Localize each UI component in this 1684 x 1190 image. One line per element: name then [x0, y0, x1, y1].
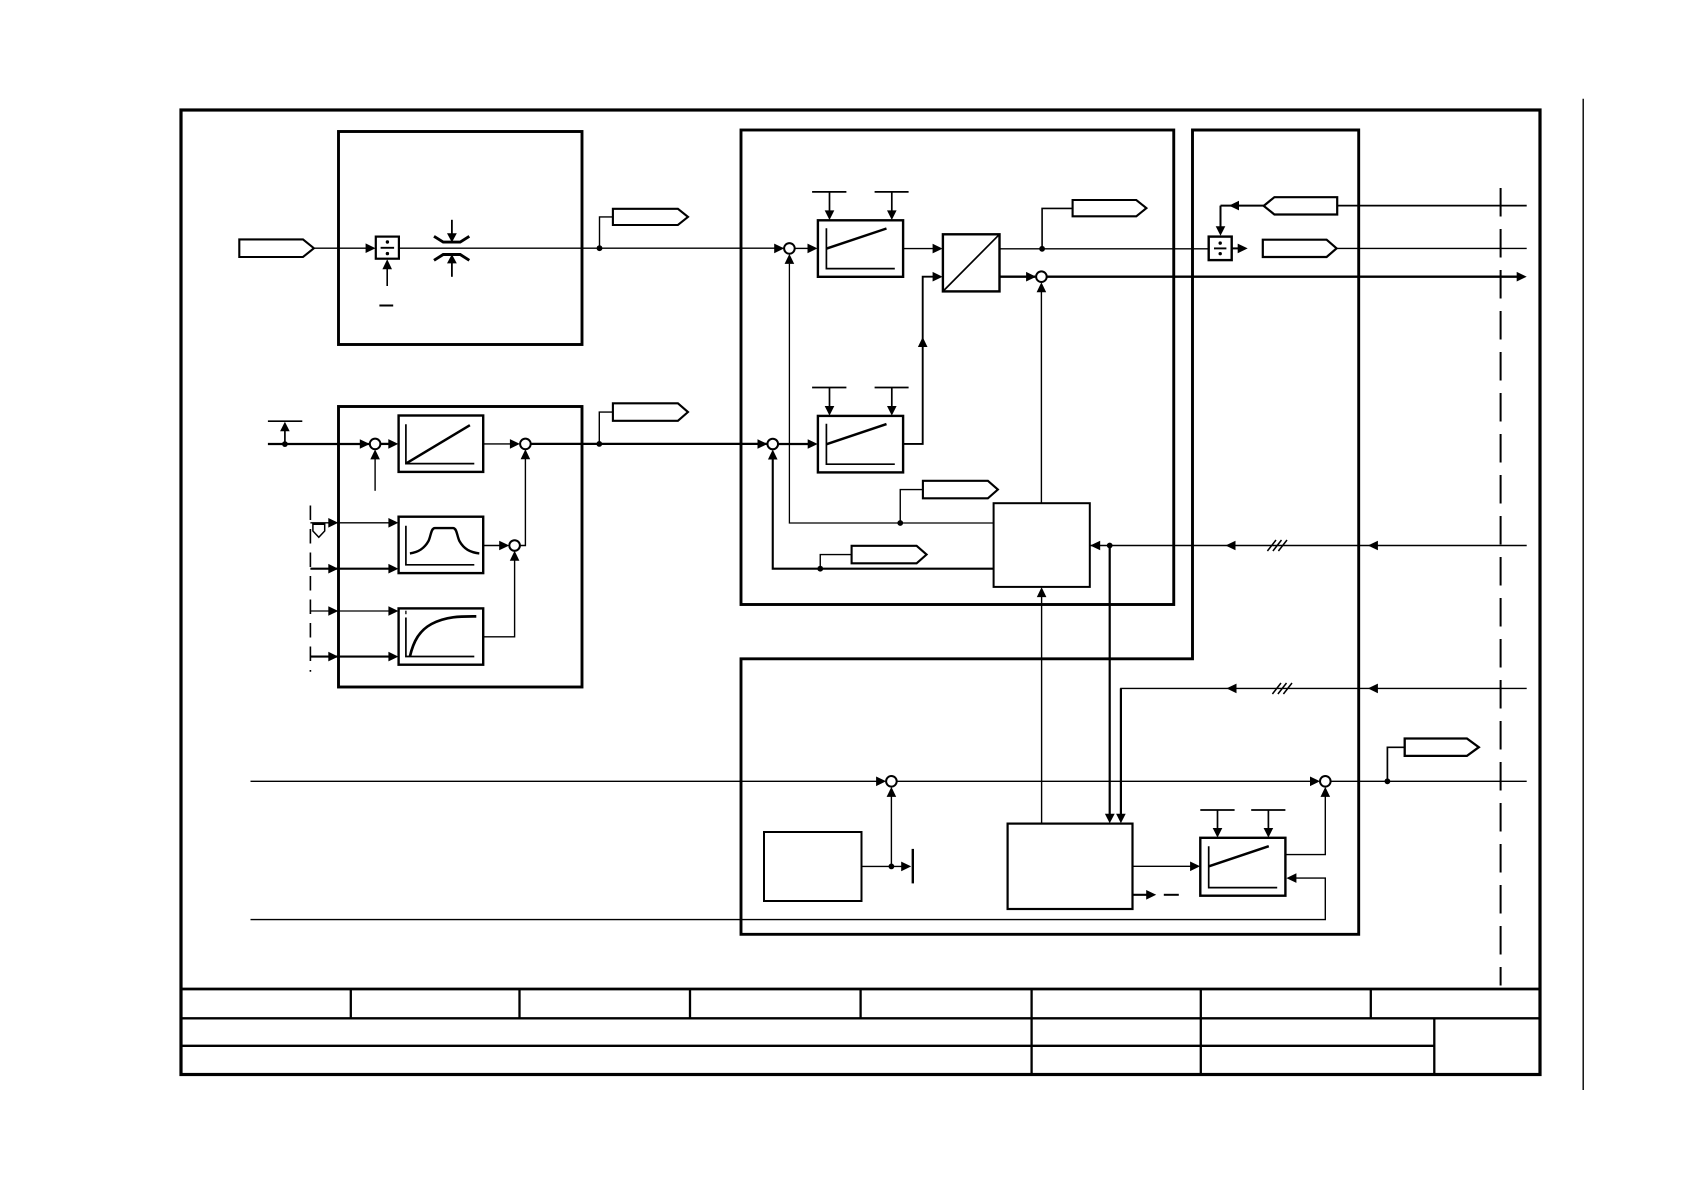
selector dashed rail: [309, 506, 311, 672]
arrowhead into summing point S4: [876, 777, 886, 787]
title block divider c5: [1030, 989, 1032, 1075]
output connector flag r1060: [1073, 200, 1147, 216]
page interface dashed line: [1500, 188, 1502, 986]
wire S4 to S5: [897, 780, 1312, 782]
wire S5 to sheet edge: [1331, 780, 1527, 782]
title block divider c2: [518, 989, 520, 1018]
ramp2 output riser to scaling square: [903, 277, 934, 444]
arrowhead into S3: [1026, 272, 1036, 282]
arrowhead into divider: [366, 243, 376, 253]
fixed value box output wire: [862, 865, 903, 867]
arrowhead into SB3: [499, 541, 509, 551]
junction node after block 2: [596, 441, 602, 447]
output connector flag r1170: [613, 403, 688, 421]
drop into divider U2: [1220, 206, 1222, 227]
arrow up into S2: [768, 450, 778, 460]
RFG1 axes: [826, 228, 894, 268]
function block 2 (setpoint shaping, lower left): [339, 407, 583, 688]
riser to output flag r1078: [600, 217, 613, 248]
selector input line 1: [310, 522, 389, 524]
limiter symbol upper bracket: [434, 236, 469, 242]
wire B1 to summing point SB2: [483, 443, 511, 445]
junction node on top output: [1039, 246, 1045, 252]
summing point S3: [1036, 271, 1047, 282]
terminator bar: [912, 849, 914, 884]
sheet border frame: [181, 110, 1540, 1075]
hanging input below SB1: [374, 459, 376, 491]
function block 3 (ramp generator, middle): [741, 130, 1174, 605]
minus label mark: [379, 305, 393, 307]
limiter symbol lower arrow: [451, 263, 453, 277]
summing point S2: [767, 439, 778, 450]
summing point SB3: [509, 540, 520, 551]
direction arrowhead mid wire 2: [1227, 684, 1237, 694]
divide symbol in U2: [1214, 247, 1226, 249]
wire up from below into limiter computer: [1041, 597, 1043, 824]
fixed value box: [764, 832, 862, 901]
title block divider c4: [859, 989, 861, 1018]
RFG1 ramp curve: [827, 229, 887, 249]
summing point SB2: [520, 439, 531, 450]
wire S1 to ramp up/down limit block: [795, 247, 808, 249]
arrowhead up on riser: [918, 337, 928, 347]
limit input wire 1 (y=545.5): [1091, 545, 1527, 547]
characteristic box B1 (linear): [399, 416, 484, 472]
input connector flag (left pointing) p2000: [1264, 197, 1338, 214]
junction node on feedback B: [817, 566, 823, 572]
ramp block RFG1: [818, 220, 903, 276]
junction node on wire 1: [1107, 543, 1113, 549]
drop from wire 1 to lower computer: [1109, 546, 1111, 815]
selector input line 3: [310, 610, 389, 612]
output arrowhead at sheet edge: [1517, 272, 1527, 282]
RFG2 parameter bar p2: [875, 387, 909, 389]
arrowhead into limiter computer: [1090, 541, 1100, 551]
arrowhead into summing point S2: [758, 439, 768, 449]
wire flag to divider U2: [1221, 205, 1264, 207]
RFG2 parameter bar p1: [812, 387, 846, 389]
wire through limiter: [399, 247, 784, 249]
arrowhead into scaling square: [933, 244, 943, 254]
title block divider c3: [689, 989, 691, 1018]
scaling square block (diagonal): [943, 234, 1000, 291]
wire SB3 up into SB2: [520, 458, 526, 546]
lower computer output wire to RFG3: [1133, 865, 1192, 867]
selector input line 4: [310, 656, 389, 658]
junction node under bar: [282, 441, 288, 447]
title block row line 2: [181, 1017, 1540, 1019]
drop segment emphasis wire 2: [1120, 688, 1122, 814]
direction arrowhead at edge wire 1: [1368, 541, 1378, 551]
wire from sheet edge y205: [1337, 205, 1527, 207]
wire S2 to ramp block RFG2: [778, 443, 809, 445]
wire SB2 out of block 2 to middle block: [531, 443, 768, 445]
arrowhead into summing point S1: [774, 244, 784, 254]
junction node on box output: [889, 864, 895, 870]
riser to output flag r1084: [1387, 747, 1404, 781]
divisor input arrow below U1: [386, 268, 388, 286]
main speed setpoint output wire: [1047, 276, 1518, 278]
title block row line 3: [181, 1045, 1434, 1047]
multi-signal slashes wire 2: [1272, 683, 1281, 694]
fixed setpoint source bar: [268, 420, 302, 422]
arrowhead into RFG2: [808, 439, 818, 449]
ramp block RFG2: [818, 416, 903, 473]
riser to output flag r1170: [599, 412, 613, 444]
output connector flag r1119: [923, 481, 998, 499]
lower computer second output arrow: [1133, 894, 1148, 896]
function block 1 (setpoint scaling, top left): [339, 132, 583, 345]
summing point S1: [784, 243, 795, 254]
summing point SB1: [370, 439, 381, 450]
title block row line 1: [181, 988, 1540, 991]
riser to output flag r1060: [1042, 208, 1073, 248]
arrow from wire up to bar: [284, 430, 286, 444]
divider block U1: [376, 237, 399, 259]
wire into block 2: [268, 443, 369, 445]
RFG1 parameter bar p2: [875, 191, 909, 193]
multi-signal slashes wire 1: [1267, 540, 1276, 551]
function block 4 (output stage, L-shaped right): [741, 130, 1359, 934]
title block divider c7: [1370, 989, 1372, 1018]
title block divider c1: [350, 989, 352, 1018]
wire RFG1 to scaling square: [903, 248, 934, 250]
input connector flag (speed setpoint): [239, 239, 314, 257]
output connector flag r1078: [613, 209, 688, 225]
direction arrowhead mid wire 1: [1226, 541, 1236, 551]
characteristic box B3 (exponential): [399, 608, 484, 664]
riser to output flag r1119: [900, 490, 923, 523]
arrowhead into terminator: [901, 862, 911, 872]
limit input wire 2 (y=688.4): [1121, 688, 1527, 814]
junction node near edge: [1385, 778, 1391, 784]
wire square bottom output to summing point S3: [1000, 276, 1036, 278]
minus label mark lower: [1164, 894, 1179, 896]
summing point S5: [1320, 776, 1331, 787]
arrow up into S1: [785, 254, 795, 264]
limiter symbol upper arrow: [451, 220, 453, 234]
characteristic box B2 (band): [399, 517, 484, 573]
wire up from fixed value box into S4: [890, 796, 892, 866]
direction arrowhead at edge wire 2: [1368, 684, 1378, 694]
arrowhead into box B1: [388, 439, 398, 449]
limiter computer block: [994, 503, 1090, 587]
title block divider c8: [1433, 1018, 1435, 1074]
lower limit computer block: [1008, 824, 1133, 909]
sheet fold mark line right: [1582, 99, 1584, 1090]
arrowhead on wire pointing left: [1229, 201, 1239, 211]
wire B2 to summing point SB3: [483, 545, 500, 547]
long wire y=781 (actual speed): [251, 780, 878, 782]
arrowhead into ramp block RFG1: [808, 244, 818, 254]
arrowhead into SB2: [510, 439, 520, 449]
wire flag to sheet edge y248: [1337, 247, 1527, 249]
limiter symbol lower bracket: [434, 255, 469, 261]
arrow up into S3 from limiter computer: [1037, 282, 1047, 292]
long wire y=919.6 with riser into RFG3 right input: [251, 878, 1326, 920]
wire limiter computer to S3: [1040, 292, 1042, 503]
arrowhead into RFG3 right side: [1286, 873, 1296, 883]
divide symbol in U1: [381, 247, 395, 249]
wire square top output to right block: [1000, 248, 1209, 250]
arrowhead into summing point SB1: [360, 439, 370, 449]
wire B3 up into SB3: [483, 560, 514, 637]
U2 output arrow: [1232, 247, 1239, 249]
arrowhead into RFG3: [1190, 862, 1200, 872]
output connector flag r1073: [1263, 240, 1337, 257]
arrowhead into summing point S5: [1310, 777, 1320, 787]
feedback wire S1 down to limiter computer: [789, 264, 993, 523]
selector input line 2: [310, 568, 389, 570]
riser to output flag r1181: [820, 555, 851, 569]
ramp block RFG3: [1200, 838, 1285, 896]
RFG3 parameter bar p2: [1251, 809, 1285, 811]
divider block U2: [1209, 237, 1232, 261]
wire flag to divider: [314, 247, 368, 249]
arrowhead into scaling square lower input: [933, 272, 943, 282]
title block divider c6: [1200, 989, 1202, 1075]
RFG1 parameter bar p1: [812, 191, 846, 193]
output connector flag r1181: [852, 546, 927, 564]
selector tag pentagon: [313, 524, 325, 537]
RFG3 output riser into S5: [1285, 796, 1325, 855]
wire SB1 to box B1: [380, 443, 390, 445]
junction node on feedback A: [897, 520, 903, 526]
RFG3 parameter bar p1: [1200, 809, 1234, 811]
junction node after block 1: [597, 245, 603, 251]
output connector flag r1084: [1405, 739, 1479, 756]
feedback wire S2 down to limiter computer: [773, 459, 994, 568]
summing point S4: [886, 776, 897, 787]
